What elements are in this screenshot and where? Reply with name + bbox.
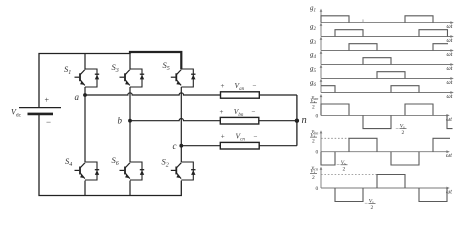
waveform g3 axis xyxy=(310,37,454,59)
node n xyxy=(295,119,299,123)
waveform va axis xyxy=(310,94,452,123)
waveform g4 axis xyxy=(310,51,454,73)
svg-text:+: + xyxy=(221,82,225,90)
waveform g2 pulses xyxy=(335,30,447,37)
svg-text:b: b xyxy=(118,116,123,126)
svg-text:2: 2 xyxy=(312,175,315,181)
svg-text:ωt: ωt xyxy=(447,66,453,72)
wire leg 1 middle xyxy=(84,87,86,162)
wire bottom rail xyxy=(39,114,181,196)
transistor S4 xyxy=(75,163,86,179)
load Vcn box xyxy=(220,142,259,149)
transistor S1 xyxy=(75,70,86,86)
wire right vertical to node n xyxy=(296,95,298,146)
svg-text:0: 0 xyxy=(316,186,319,192)
wire raised top rail to leg 3 xyxy=(130,52,181,69)
waveform g4 pulses xyxy=(363,58,391,65)
svg-text:ωt: ωt xyxy=(447,52,453,58)
freewheel diode of S1 xyxy=(85,69,99,87)
svg-text:Vs: Vs xyxy=(400,124,405,130)
label -Vs/2 vcn xyxy=(365,199,376,211)
svg-text:2: 2 xyxy=(343,166,346,172)
transistor S2 xyxy=(171,163,182,179)
load Van box xyxy=(221,92,260,98)
svg-text:Vs: Vs xyxy=(341,160,346,166)
waveform g3 pulses xyxy=(349,44,448,51)
waveform g1 pulses xyxy=(321,16,433,23)
waveform vc axis xyxy=(310,165,452,195)
label -Vs/2 vbn xyxy=(337,160,348,172)
svg-text:2: 2 xyxy=(371,205,374,211)
svg-text:ωt: ωt xyxy=(447,94,453,100)
svg-text:ωt: ωt xyxy=(447,80,453,86)
freewheel diode of S5 xyxy=(181,69,195,87)
freewheel diode of S2 xyxy=(181,162,195,180)
transistor S5 xyxy=(171,70,182,86)
waveform vb axis xyxy=(310,129,452,159)
dashed Vs/2 level line vb xyxy=(321,137,349,139)
wire leg 1 top xyxy=(84,54,86,70)
waveform g2 axis xyxy=(310,23,454,45)
freewheel diode of S6 xyxy=(130,162,144,180)
freewheel diode of S3 xyxy=(130,69,144,87)
svg-text:c: c xyxy=(173,141,177,151)
waveform g5 axis xyxy=(310,65,454,87)
node b xyxy=(128,119,132,123)
svg-text:0: 0 xyxy=(316,150,319,156)
svg-text:ωt: ωt xyxy=(447,38,453,44)
waveform vb xyxy=(321,138,450,165)
svg-text:2: 2 xyxy=(312,104,315,110)
transistor S6 xyxy=(120,163,131,179)
label -Vs/2 van xyxy=(396,124,407,136)
svg-text:+: + xyxy=(220,108,224,116)
svg-text:−: − xyxy=(46,117,51,127)
svg-text:0: 0 xyxy=(316,113,319,119)
node a xyxy=(83,93,87,97)
waveform g5 pulses xyxy=(377,72,405,79)
svg-text:Vs: Vs xyxy=(369,199,374,205)
wire leg 3 middle xyxy=(180,87,182,162)
svg-text:ωt: ωt xyxy=(446,153,452,159)
wire phase c line xyxy=(181,145,297,147)
dc source Vdc battery xyxy=(19,107,61,109)
waveform g1 axis xyxy=(310,4,454,30)
svg-text:−: − xyxy=(254,133,258,141)
svg-text:+: + xyxy=(45,96,50,105)
wire leg 2 middle xyxy=(129,87,131,162)
waveform va xyxy=(321,104,453,129)
svg-text:2: 2 xyxy=(312,139,315,145)
load Vbn box xyxy=(220,117,258,124)
transistor S3 xyxy=(120,70,131,86)
wire phase b line with hop xyxy=(130,118,297,120)
waveform g6 pulses xyxy=(321,86,419,93)
svg-text:−: − xyxy=(253,82,257,90)
wire leg 2 top xyxy=(129,54,131,70)
freewheel diode of S4 xyxy=(85,162,99,180)
node c xyxy=(179,144,183,148)
svg-text:−: − xyxy=(252,108,256,116)
svg-text:n: n xyxy=(302,115,307,126)
svg-text:+: + xyxy=(221,133,225,141)
waveform vc xyxy=(335,175,447,202)
wire phase a line with hops xyxy=(85,93,297,95)
wire leg 1 bottom xyxy=(84,181,86,196)
wire leg 2 bottom xyxy=(129,181,131,196)
tick 180deg row g1 xyxy=(362,19,364,22)
wire top rail xyxy=(39,54,130,108)
dashed Vs/2 level line vc xyxy=(321,174,377,176)
waveform g6 axis xyxy=(310,79,454,101)
svg-text:2: 2 xyxy=(402,130,405,136)
svg-text:a: a xyxy=(75,92,80,102)
